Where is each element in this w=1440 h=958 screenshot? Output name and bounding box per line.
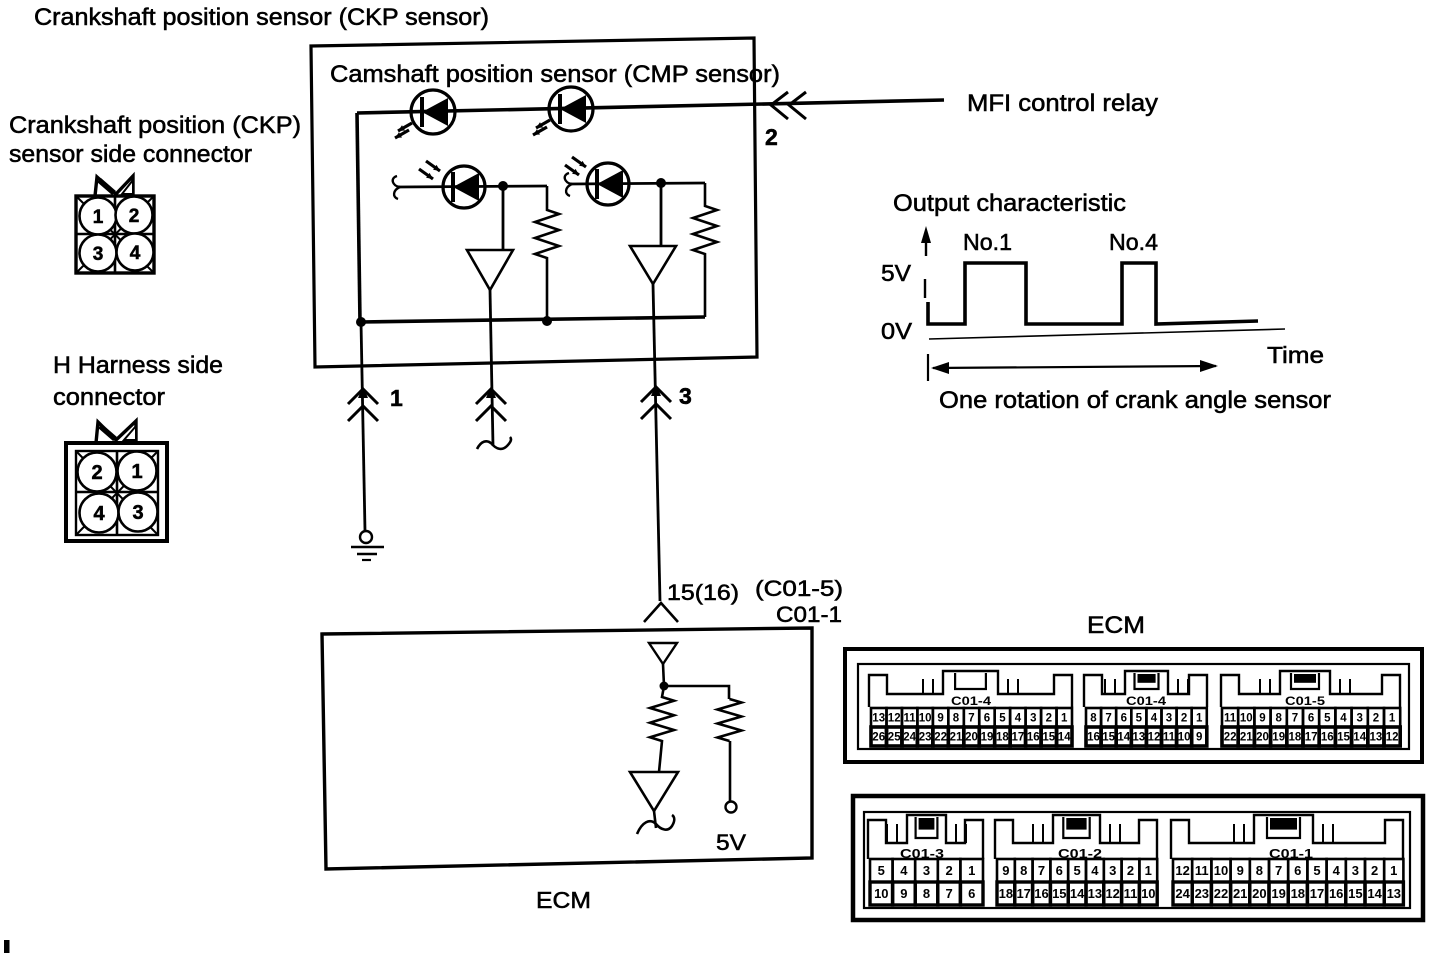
svg-text:13: 13 bbox=[1088, 886, 1102, 901]
op-amp buffer A1 bbox=[467, 250, 513, 290]
PD1 lead curl bbox=[393, 176, 400, 199]
svg-text:5: 5 bbox=[1324, 713, 1331, 725]
svg-text:3: 3 bbox=[132, 502, 143, 524]
svg-text:1: 1 bbox=[968, 863, 975, 878]
svg-text:5: 5 bbox=[1313, 863, 1320, 878]
svg-text:C01-4: C01-4 bbox=[1126, 696, 1167, 708]
svg-text:22: 22 bbox=[1224, 732, 1237, 744]
svg-text:2: 2 bbox=[1046, 713, 1052, 725]
svg-text:5: 5 bbox=[878, 863, 885, 878]
svg-text:13: 13 bbox=[1132, 732, 1145, 744]
svg-text:4: 4 bbox=[1151, 713, 1158, 725]
svg-text:15: 15 bbox=[1042, 732, 1055, 744]
svg-text:17: 17 bbox=[1016, 886, 1030, 901]
graph y-axis bbox=[921, 226, 931, 243]
svg-text:4: 4 bbox=[93, 503, 105, 525]
wire: line 1 to ground bbox=[361, 322, 365, 531]
photodiode PD1 bbox=[443, 166, 485, 208]
svg-text:9: 9 bbox=[1237, 863, 1244, 878]
svg-text:14: 14 bbox=[1117, 732, 1130, 744]
svg-text:16: 16 bbox=[1329, 886, 1343, 901]
svg-text:5V: 5V bbox=[716, 830, 746, 855]
svg-text:4: 4 bbox=[1340, 713, 1347, 725]
B2 output curl bbox=[654, 811, 656, 828]
svg-text:16: 16 bbox=[1087, 732, 1100, 744]
svg-text:18: 18 bbox=[1289, 732, 1302, 744]
node: junction dot under R1 bbox=[542, 316, 552, 326]
svg-text:8: 8 bbox=[1256, 863, 1263, 878]
svg-text:ECM: ECM bbox=[1087, 612, 1145, 639]
connector C01-1 (24 pin) bbox=[1171, 815, 1403, 859]
svg-text:2: 2 bbox=[129, 206, 140, 227]
node: junction dot left bbox=[356, 317, 366, 327]
svg-text:12: 12 bbox=[1105, 886, 1119, 901]
svg-text:10: 10 bbox=[1141, 886, 1155, 901]
svg-text:9: 9 bbox=[937, 713, 943, 725]
svg-text:21: 21 bbox=[1233, 886, 1247, 901]
LED D1 emission arrows bbox=[398, 123, 412, 131]
svg-text:5V: 5V bbox=[881, 260, 912, 286]
connector C01-3 (10 pin) bbox=[868, 815, 983, 859]
wire: left vertical drop bbox=[357, 113, 360, 322]
graph waveform bbox=[928, 263, 1258, 324]
svg-text:1: 1 bbox=[1390, 863, 1397, 878]
svg-text:12: 12 bbox=[1148, 732, 1161, 744]
op-amp buffer A2 bbox=[630, 246, 676, 284]
svg-text:One rotation of crank angle se: One rotation of crank angle sensor bbox=[939, 387, 1331, 414]
svg-text:3: 3 bbox=[1109, 863, 1116, 878]
svg-text:MFI control relay: MFI control relay bbox=[967, 90, 1158, 117]
svg-text:15: 15 bbox=[1337, 732, 1350, 744]
wire: PD2 output to amplifier A2 bbox=[660, 183, 663, 246]
wire: A1 output line 2 bbox=[490, 290, 493, 446]
svg-text:6: 6 bbox=[968, 886, 975, 901]
svg-text:11: 11 bbox=[904, 713, 917, 725]
svg-text:2: 2 bbox=[91, 462, 102, 484]
svg-text:11: 11 bbox=[1163, 732, 1176, 744]
svg-text:10: 10 bbox=[874, 886, 888, 901]
line 2 end curl bbox=[477, 437, 511, 449]
svg-text:19: 19 bbox=[1272, 732, 1285, 744]
svg-text:connector: connector bbox=[53, 384, 165, 411]
svg-text:11: 11 bbox=[1195, 863, 1209, 878]
connector chevron into ECM bbox=[644, 603, 678, 622]
wire: bottom rail bbox=[360, 317, 705, 322]
graph time axis (thin) bbox=[929, 329, 1285, 339]
wire: branch to pullup bbox=[664, 686, 729, 699]
PD2 incident light arrows bbox=[572, 157, 586, 167]
svg-text:3: 3 bbox=[1030, 713, 1036, 725]
svg-text:11: 11 bbox=[1124, 886, 1138, 901]
svg-text:1: 1 bbox=[1389, 713, 1396, 725]
svg-text:20: 20 bbox=[965, 732, 978, 744]
svg-text:9: 9 bbox=[1002, 863, 1009, 878]
LED D2 bbox=[549, 87, 593, 131]
svg-text:2: 2 bbox=[945, 863, 952, 878]
svg-text:0V: 0V bbox=[881, 318, 913, 344]
svg-text:22: 22 bbox=[1214, 886, 1228, 901]
svg-text:5: 5 bbox=[1073, 863, 1080, 878]
CKP sensor side connector bbox=[76, 176, 154, 273]
node: junction dot PD1 output bbox=[498, 181, 508, 191]
svg-text:19: 19 bbox=[1271, 886, 1285, 901]
wire: B1 to node bbox=[663, 664, 664, 686]
wire: photodiode PD1 row bbox=[398, 186, 547, 187]
svg-text:Camshaft position sensor (CMP: Camshaft position sensor (CMP sensor) bbox=[330, 61, 780, 88]
svg-text:15: 15 bbox=[1052, 886, 1066, 901]
svg-text:16: 16 bbox=[1321, 732, 1334, 744]
photodiode PD2 bbox=[587, 163, 629, 205]
svg-text:19: 19 bbox=[981, 732, 994, 744]
ECM top connector strip bbox=[845, 649, 1422, 762]
svg-text:26: 26 bbox=[872, 732, 885, 744]
svg-text:6: 6 bbox=[1308, 713, 1314, 725]
svg-text:10: 10 bbox=[1214, 863, 1228, 878]
svg-text:16: 16 bbox=[1027, 732, 1040, 744]
svg-text:4: 4 bbox=[900, 863, 908, 878]
svg-text:5: 5 bbox=[1136, 713, 1143, 725]
svg-text:18: 18 bbox=[996, 732, 1009, 744]
svg-text:No.4: No.4 bbox=[1109, 229, 1158, 255]
svg-text:Crankshaft position sensor (CK: Crankshaft position sensor (CKP sensor) bbox=[34, 4, 489, 31]
svg-text:ECM: ECM bbox=[536, 887, 591, 913]
LED D1 bbox=[411, 90, 455, 134]
connector C01-4 (middle, 16 pin) bbox=[1084, 671, 1207, 707]
svg-text:14: 14 bbox=[1367, 886, 1382, 901]
LED D2 emission arrows bbox=[536, 120, 550, 128]
svg-text:12: 12 bbox=[1175, 863, 1189, 878]
svg-text:C01-1: C01-1 bbox=[776, 602, 842, 627]
svg-text:13: 13 bbox=[1387, 886, 1401, 901]
connector C01-2 (18 pin) bbox=[995, 815, 1157, 859]
svg-text:4: 4 bbox=[1333, 863, 1341, 878]
svg-text:C01-4: C01-4 bbox=[951, 696, 992, 708]
svg-text:12: 12 bbox=[1386, 732, 1399, 744]
svg-text:8: 8 bbox=[953, 713, 960, 725]
wire: supply from MFI control relay through LEDs bbox=[357, 100, 944, 113]
svg-text:8: 8 bbox=[1020, 863, 1027, 878]
svg-text:10: 10 bbox=[919, 713, 932, 725]
ground symbol bbox=[360, 531, 372, 543]
wire: photodiode PD2 row bbox=[570, 183, 705, 184]
svg-text:20: 20 bbox=[1256, 732, 1269, 744]
svg-text:H Harness side: H Harness side bbox=[53, 352, 223, 379]
buffer B1 in ECM bbox=[649, 643, 677, 664]
svg-text:18: 18 bbox=[1291, 886, 1305, 901]
svg-text:3: 3 bbox=[1356, 713, 1362, 725]
svg-text:2: 2 bbox=[1181, 713, 1187, 725]
svg-text:No.1: No.1 bbox=[963, 229, 1012, 255]
resistor R2 bbox=[693, 183, 717, 317]
5V terminal circle bbox=[726, 802, 737, 813]
svg-text:Time: Time bbox=[1267, 342, 1324, 368]
svg-text:4: 4 bbox=[130, 243, 141, 264]
svg-text:6: 6 bbox=[1294, 863, 1301, 878]
resistor R3 bbox=[650, 686, 674, 772]
svg-text:21: 21 bbox=[1240, 732, 1253, 744]
svg-text:24: 24 bbox=[903, 732, 916, 744]
wire: A2 output line 3 bbox=[653, 284, 660, 601]
svg-text:Crankshaft position (CKP): Crankshaft position (CKP) bbox=[9, 112, 301, 139]
ECM bottom connector strip bbox=[853, 796, 1423, 920]
svg-text:23: 23 bbox=[919, 732, 932, 744]
svg-text:15: 15 bbox=[1102, 732, 1115, 744]
CMP sensor box outline bbox=[311, 38, 757, 367]
svg-text:9: 9 bbox=[1196, 732, 1202, 744]
svg-text:12: 12 bbox=[888, 713, 901, 725]
svg-text:3: 3 bbox=[93, 244, 104, 265]
ECM box outline bbox=[322, 628, 812, 869]
svg-text:17: 17 bbox=[1310, 886, 1324, 901]
svg-text:7: 7 bbox=[1275, 863, 1282, 878]
scan mark bottom-left bbox=[4, 940, 10, 953]
svg-text:4: 4 bbox=[1091, 863, 1099, 878]
node: junction dot PD2 output bbox=[656, 178, 666, 188]
svg-text:14: 14 bbox=[1070, 886, 1085, 901]
svg-text:2: 2 bbox=[1373, 713, 1379, 725]
one-rotation span arrow bbox=[927, 354, 929, 381]
svg-text:2: 2 bbox=[1127, 863, 1134, 878]
svg-text:18: 18 bbox=[999, 886, 1013, 901]
connector chevrons line 2 bbox=[486, 386, 496, 398]
svg-text:3: 3 bbox=[679, 383, 692, 409]
svg-text:1: 1 bbox=[1196, 713, 1203, 725]
connector C01-5 (right, 22 pin) bbox=[1221, 671, 1400, 707]
resistor R1 bbox=[535, 186, 559, 322]
svg-text:8: 8 bbox=[1275, 713, 1282, 725]
svg-text:13: 13 bbox=[872, 713, 885, 725]
svg-text:24: 24 bbox=[1175, 886, 1190, 901]
H harness side connector bbox=[66, 421, 167, 541]
svg-text:7: 7 bbox=[1105, 713, 1111, 725]
PD2 lead curl bbox=[565, 173, 572, 196]
svg-text:1: 1 bbox=[131, 461, 142, 483]
wire: PD1 output to amplifier A1 bbox=[502, 186, 505, 251]
svg-text:9: 9 bbox=[900, 886, 907, 901]
svg-text:14: 14 bbox=[1353, 732, 1366, 744]
PD1 incident light arrows bbox=[426, 161, 440, 171]
svg-text:1: 1 bbox=[1145, 863, 1152, 878]
svg-text:7: 7 bbox=[1292, 713, 1298, 725]
svg-text:15: 15 bbox=[1348, 886, 1362, 901]
svg-text:10: 10 bbox=[1240, 713, 1253, 725]
svg-text:sensor side connector: sensor side connector bbox=[9, 141, 252, 168]
svg-text:8: 8 bbox=[1090, 713, 1097, 725]
svg-text:16: 16 bbox=[1034, 886, 1048, 901]
svg-text:7: 7 bbox=[1038, 863, 1045, 878]
connector chevrons line 3 bbox=[651, 384, 661, 396]
svg-text:17: 17 bbox=[1305, 732, 1318, 744]
svg-text:(C01-5): (C01-5) bbox=[755, 576, 843, 601]
svg-text:11: 11 bbox=[1224, 713, 1237, 725]
resistor R4 pull-up bbox=[718, 699, 742, 741]
svg-text:1: 1 bbox=[390, 385, 403, 411]
svg-text:22: 22 bbox=[934, 732, 947, 744]
svg-text:2: 2 bbox=[1371, 863, 1378, 878]
svg-text:23: 23 bbox=[1195, 886, 1209, 901]
svg-text:6: 6 bbox=[984, 713, 990, 725]
svg-text:6: 6 bbox=[1056, 863, 1063, 878]
svg-text:14: 14 bbox=[1058, 732, 1071, 744]
svg-text:9: 9 bbox=[1259, 713, 1265, 725]
svg-text:5: 5 bbox=[999, 713, 1006, 725]
svg-text:1: 1 bbox=[1061, 713, 1068, 725]
svg-text:15(16): 15(16) bbox=[667, 580, 739, 605]
svg-text:3: 3 bbox=[1352, 863, 1359, 878]
svg-text:3: 3 bbox=[923, 863, 930, 878]
op-amp buffer B2 in ECM bbox=[630, 772, 678, 811]
svg-text:8: 8 bbox=[923, 886, 930, 901]
svg-text:2: 2 bbox=[765, 124, 778, 150]
connector chevrons line 1 bbox=[358, 386, 368, 398]
connector C01-4 (left, 26 pin) bbox=[869, 671, 1072, 707]
node: junction dot in ECM bbox=[660, 682, 669, 691]
svg-text:C01-5: C01-5 bbox=[1285, 696, 1326, 708]
svg-text:6: 6 bbox=[1121, 713, 1127, 725]
svg-text:25: 25 bbox=[888, 732, 901, 744]
svg-text:7: 7 bbox=[945, 886, 952, 901]
svg-text:Output characteristic: Output characteristic bbox=[893, 190, 1126, 217]
svg-text:20: 20 bbox=[1252, 886, 1266, 901]
svg-text:10: 10 bbox=[1178, 732, 1191, 744]
connector symbol 2 (double chevron) on MFI wire bbox=[771, 92, 788, 119]
svg-text:7: 7 bbox=[968, 713, 974, 725]
svg-text:21: 21 bbox=[950, 732, 963, 744]
svg-text:13: 13 bbox=[1370, 732, 1383, 744]
svg-text:17: 17 bbox=[1012, 732, 1025, 744]
svg-text:1: 1 bbox=[93, 207, 104, 228]
svg-text:3: 3 bbox=[1166, 713, 1172, 725]
svg-text:4: 4 bbox=[1015, 713, 1022, 725]
